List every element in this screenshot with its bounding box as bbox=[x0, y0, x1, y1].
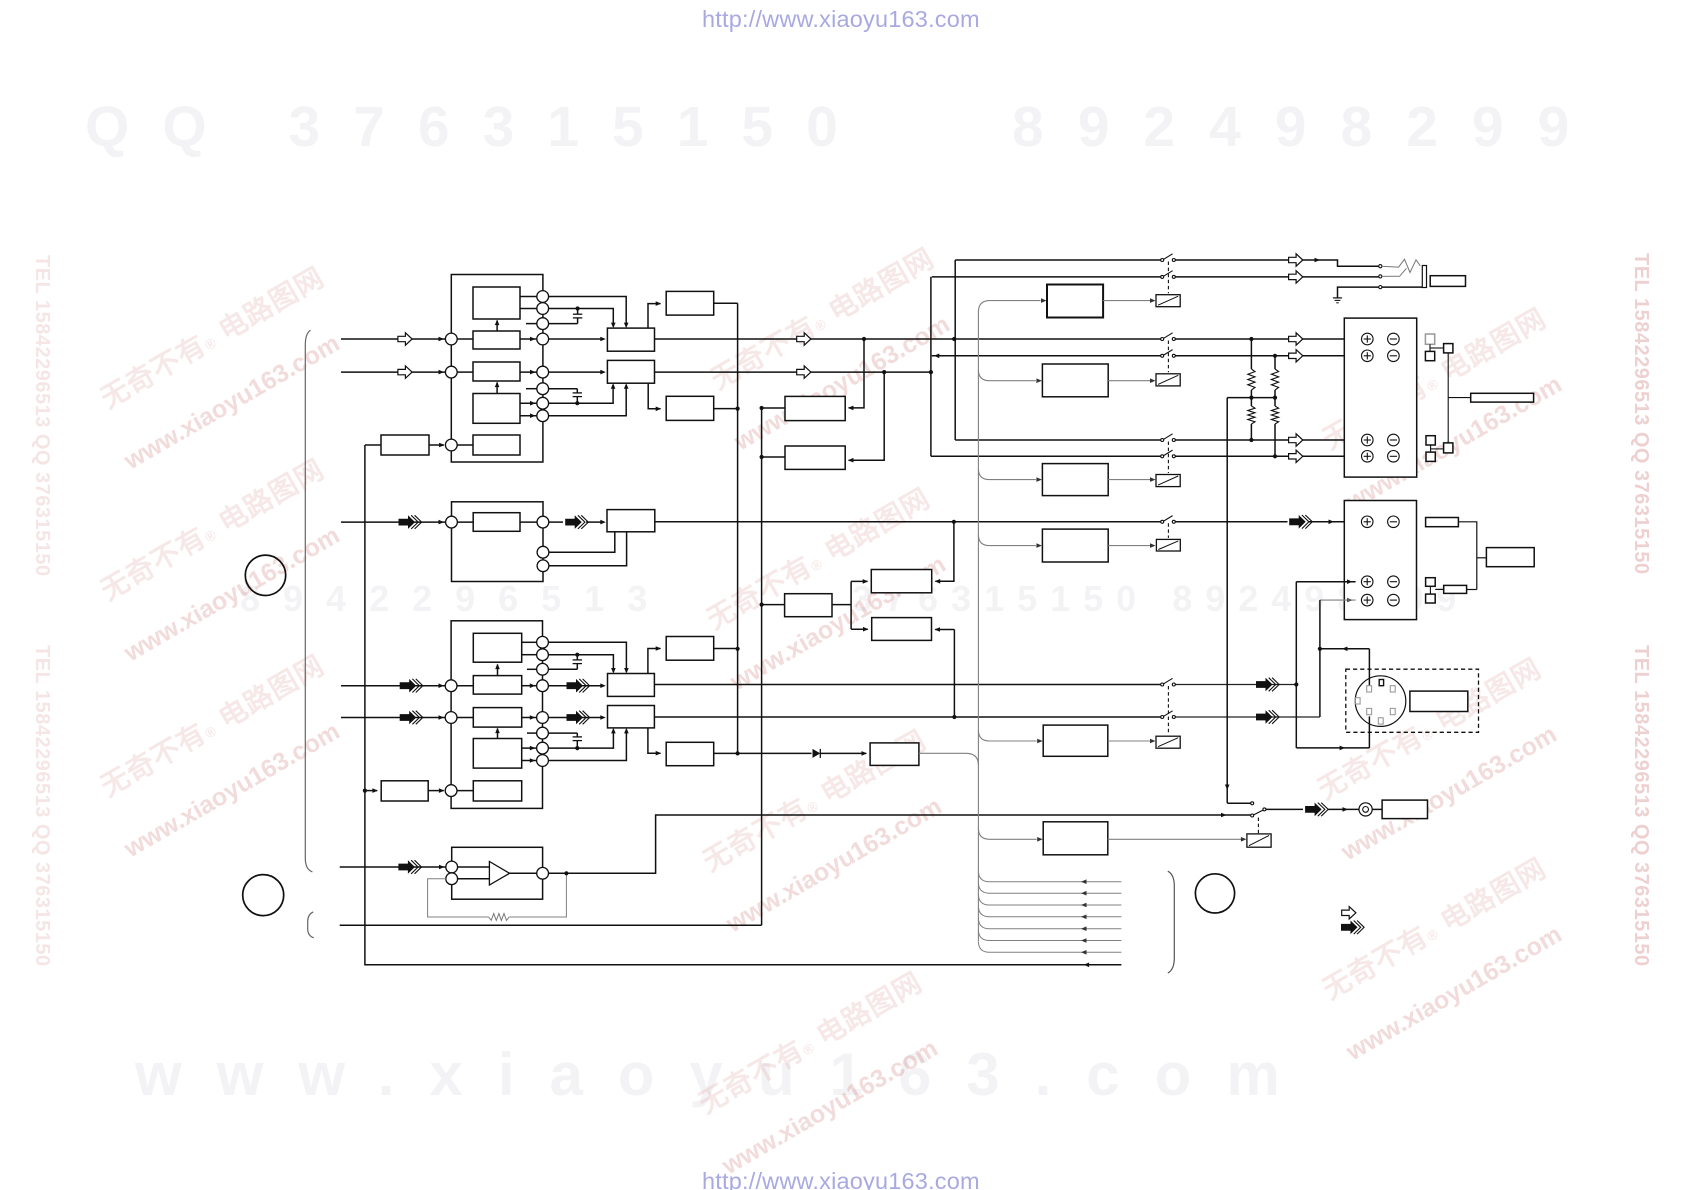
svg-text:www.xiaoyu163.com: www.xiaoyu163.com bbox=[721, 792, 947, 939]
svg-text:无奇不有® 电路图网: 无奇不有® 电路图网 bbox=[1313, 652, 1547, 805]
svg-text:www.xiaoyu163.com: www.xiaoyu163.com bbox=[1341, 920, 1567, 1067]
svg-text:www.xiaoyu163.com: www.xiaoyu163.com bbox=[119, 521, 345, 668]
svg-text:www.xiaoyu163.com: www.xiaoyu163.com bbox=[119, 329, 345, 476]
svg-text:无奇不有® 电路图网: 无奇不有® 电路图网 bbox=[694, 966, 928, 1119]
svg-text:无奇不有® 电路图网: 无奇不有® 电路图网 bbox=[96, 649, 330, 802]
svg-text:www.xiaoyu163.com: www.xiaoyu163.com bbox=[729, 310, 955, 457]
svg-text:无奇不有® 电路图网: 无奇不有® 电路图网 bbox=[96, 261, 330, 414]
svg-text:无奇不有® 电路图网: 无奇不有® 电路图网 bbox=[96, 453, 330, 606]
svg-text:www.xiaoyu163.com: www.xiaoyu163.com bbox=[717, 1034, 943, 1181]
svg-text:www.xiaoyu163.com: www.xiaoyu163.com bbox=[119, 717, 345, 864]
